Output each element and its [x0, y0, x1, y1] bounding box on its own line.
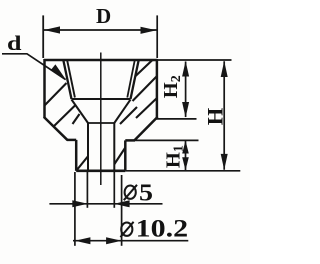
label H2 (rotated) — [160, 75, 184, 98]
label phi5 — [139, 180, 153, 207]
right chamfer — [135, 117, 158, 140]
phi5 right arrow (points left) — [114, 200, 130, 207]
H1 top extension (shoulder extended) — [135, 139, 199, 141]
taper outer right line — [131, 60, 139, 99]
H2 dimension line — [185, 62, 187, 118]
hatch left wall — [43, 83, 89, 171]
cone-hole junction line — [88, 122, 114, 124]
phi5 right extension — [113, 172, 115, 208]
d leader line — [2, 54, 66, 80]
svg-text:10.2: 10.2 — [136, 216, 189, 243]
label H (rotated) — [202, 107, 227, 125]
H2 bottom arrow — [182, 102, 189, 118]
taper inner right line — [127, 60, 135, 98]
H dimension line — [223, 61, 225, 170]
phi10.2 left extension — [74, 172, 76, 246]
right shoulder — [125, 139, 135, 142]
phi5 dimension line — [49, 203, 162, 205]
phi symbol of phi5 — [124, 185, 137, 200]
D left arrow — [44, 26, 60, 33]
left shoulder — [67, 139, 76, 142]
hatch right wall — [114, 59, 158, 166]
svg-text:H2: H2 — [160, 75, 184, 98]
svg-text:D: D — [96, 4, 111, 28]
D right extension line — [156, 15, 158, 58]
phi10.2 left arrow (points left) — [75, 237, 91, 244]
H2 top arrow — [182, 61, 189, 77]
svg-text:H: H — [202, 107, 227, 125]
label H1 (rotated) — [163, 145, 187, 168]
stem left wall — [75, 140, 78, 171]
taper inner left line — [67, 60, 75, 98]
H2 bottom extension line — [156, 118, 197, 120]
D right arrow — [141, 27, 157, 34]
H1 bottom arrow — [182, 157, 189, 170]
wire: right outer wall — [156, 59, 159, 118]
H1 top arrow — [182, 141, 189, 154]
phi10.2 right arrow (points right) — [106, 237, 122, 244]
left chamfer — [44, 117, 68, 140]
svg-text:d: d — [7, 31, 22, 55]
d leader arrow — [51, 64, 67, 80]
H top arrow — [221, 61, 228, 77]
phi10.2 right extension — [121, 175, 123, 246]
svg-text:5: 5 — [139, 180, 153, 207]
phi10.2 dimension line — [73, 240, 188, 242]
phi symbol of phi10.2 — [120, 222, 133, 237]
D dimension line — [43, 29, 157, 31]
phi5 left arrow (points right) — [72, 200, 88, 207]
hole left line — [87, 123, 89, 171]
taper outer left line — [63, 60, 71, 99]
hole right line — [113, 123, 115, 171]
svg-text:H1: H1 — [163, 145, 187, 168]
phi5 left extension — [86, 172, 88, 208]
cavity bottom line — [72, 98, 131, 100]
bowl right line — [114, 100, 130, 124]
bowl left line — [72, 100, 89, 124]
wire: left outer wall — [43, 59, 46, 118]
centerline — [100, 53, 102, 186]
D left extension line — [42, 15, 44, 58]
arrowheads — [44, 26, 228, 244]
stem right wall — [124, 140, 127, 170]
top face line with right extension — [44, 59, 157, 62]
H bottom arrow — [221, 154, 228, 170]
H1 dimension line — [185, 141, 187, 171]
bottom face + right extension — [76, 170, 125, 173]
